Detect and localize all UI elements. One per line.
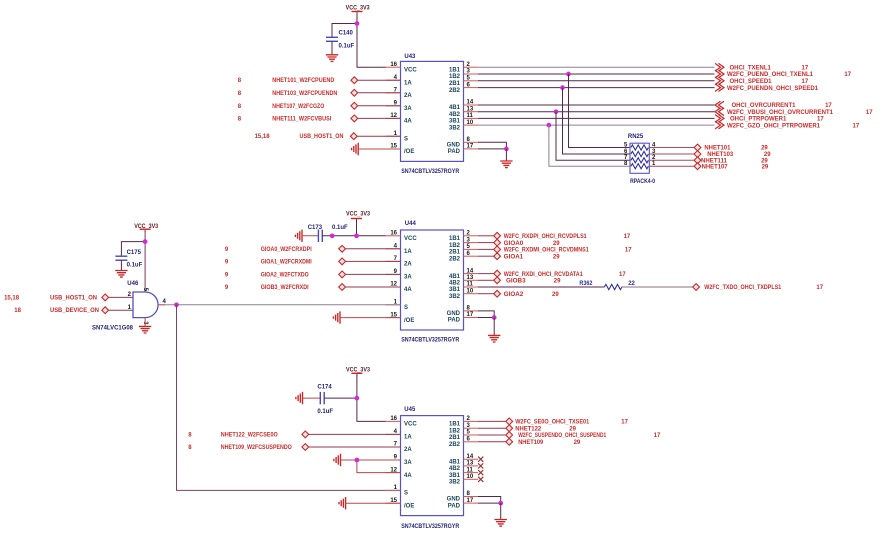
svg-text:NHET122: NHET122: [515, 426, 542, 432]
wire U46 output to U44 pin S: [158, 304, 400, 306]
power VCC_3V3 (top): [346, 5, 371, 14]
svg-text:29: 29: [554, 279, 561, 285]
ground (U44 /OE): [333, 311, 340, 323]
svg-text:NHET107: NHET107: [702, 164, 729, 170]
svg-text:W2FC_SUSPENDO_OHCI_SUSPEND1: W2FC_SUSPENDO_OHCI_SUSPEND1: [518, 433, 607, 439]
node tap at x=548.9: [547, 123, 552, 128]
off-page chevron OHCI_PTRPOWER1: [715, 115, 724, 123]
off-page chevron W2FC_VBUSI_OHCI_OVRCURRENT1: [715, 108, 724, 116]
wire ground to C174: [303, 397, 321, 399]
ground (U45 PAD): [495, 520, 507, 527]
svg-text:17: 17: [844, 72, 851, 78]
wire VCC_3V3 to U46 pin 5: [144, 231, 146, 292]
svg-text:GIOA0_W2FCRXDPI: GIOA0_W2FCRXDPI: [261, 247, 312, 253]
svg-text:C140: C140: [339, 31, 354, 37]
svg-text:USB_HOST1_ON: USB_HOST1_ON: [50, 295, 97, 301]
wire U46 pin 3 to ground: [144, 318, 146, 327]
wire R362 to W2FC_TXDO_OHCI_TXDPLS1: [621, 286, 692, 288]
svg-text:9: 9: [225, 259, 229, 265]
svg-text:GIOA2: GIOA2: [504, 292, 524, 298]
wire net OHCI_OVRCURRENT1: [478, 104, 715, 106]
svg-text:17: 17: [825, 103, 832, 109]
svg-text:17: 17: [619, 272, 626, 278]
wire U44 3B1 to R362: [478, 286, 604, 288]
svg-text:GIOA0: GIOA0: [504, 241, 524, 247]
off-page connector GIOA0_W2FCRXDPI: [339, 245, 346, 252]
svg-text:17: 17: [802, 79, 809, 85]
svg-text:0.1uF: 0.1uF: [339, 43, 355, 49]
wire tap to RN25: [569, 74, 631, 148]
wire net GIOB3: [478, 279, 494, 281]
wire USB_HOST1_ON to U46 pin 2: [109, 296, 133, 298]
svg-text:9: 9: [225, 272, 229, 278]
svg-text:22: 22: [628, 281, 635, 287]
svg-text:W2FC_TXDO_OHCI_TXDPLS1: W2FC_TXDO_OHCI_TXDPLS1: [704, 285, 782, 291]
wire USB_DEVICE_ON to U46 pin 1: [109, 309, 133, 311]
wire net GIOA1: [478, 255, 494, 257]
svg-text:VCC_3V3: VCC_3V3: [346, 5, 371, 11]
no-connect X: [478, 470, 483, 475]
svg-text:OHCI_OVRCURRENT1: OHCI_OVRCURRENT1: [732, 103, 797, 109]
net label W2FC_PUEND_OHCI_TXENL1: [727, 72, 852, 78]
svg-text:U43: U43: [404, 54, 416, 60]
capacitor C175 0.1uF: [115, 250, 142, 268]
off-page connector NHET122_W2FCSE0O: [302, 431, 309, 438]
net label NHET101_W2FCPUEND: [238, 78, 335, 84]
net label NHET122: [515, 426, 576, 432]
wire net W2FC_SE0O_OHCI_TXSE01: [478, 420, 506, 422]
svg-text:C174: C174: [317, 384, 332, 390]
net label GIOA2: [504, 292, 560, 298]
svg-text:29: 29: [574, 440, 581, 446]
net label OHCI_PTRPOWER1: [730, 117, 824, 123]
no-connect X: [478, 457, 483, 462]
svg-text:GIOA2_W2FCTXDO: GIOA2_W2FCTXDO: [261, 272, 309, 278]
svg-text:29: 29: [553, 241, 560, 247]
off-page connector NHET109: [506, 438, 513, 445]
net label NHET111: [701, 159, 768, 165]
net label W2FC_SE0O_OHCI_TXSE01: [515, 420, 628, 426]
svg-text:17: 17: [816, 285, 823, 291]
ground (U46 pin 3): [139, 326, 151, 333]
ground (U45 3A/4A): [334, 454, 341, 466]
node U46 output junction: [174, 302, 179, 307]
svg-text:8: 8: [238, 78, 242, 84]
off-page connector GIOB3: [494, 277, 501, 284]
power VCC_3V3 (U46): [134, 224, 159, 232]
wire net W2FC_GZO_OHCI_PTRPOWER1: [478, 124, 715, 126]
svg-text:RN25: RN25: [628, 134, 644, 140]
svg-text:15,18: 15,18: [255, 134, 271, 140]
svg-text:29: 29: [762, 164, 769, 170]
net label USB_DEVICE_ON: [14, 308, 99, 314]
wire U46 output down to U45 pin S: [177, 305, 401, 491]
wire /OE ground to U44 pin 15: [340, 317, 401, 319]
svg-text:NHET122_W2FCSE0O: NHET122_W2FCSE0O: [221, 432, 278, 438]
svg-text:NHET101_W2FCPUEND: NHET101_W2FCPUEND: [272, 78, 335, 84]
wire GIOA2_W2FCTXDO to pin: [346, 273, 401, 275]
off-page connector NHET103: [694, 151, 701, 158]
svg-text:17: 17: [621, 420, 628, 426]
wire net GIOA2: [478, 293, 494, 295]
wire C175 to ground: [120, 260, 122, 270]
net label W2FC_PUENDN_OHCI_SPEED1: [727, 86, 819, 92]
svg-text:15,18: 15,18: [4, 295, 20, 301]
svg-text:NHET111_W2FCVBUSI: NHET111_W2FCVBUSI: [272, 116, 331, 122]
svg-text:NHET109: NHET109: [518, 440, 544, 446]
svg-text:SN74LVC1G08: SN74LVC1G08: [92, 326, 134, 332]
node C175/VCC junction: [143, 239, 148, 244]
off-page connector USB_HOST1_ON: [102, 294, 109, 301]
off-page connector W2FC_RXDMI_OHCI_RCVDMNS1: [494, 246, 501, 253]
node U44 PAD junction: [492, 315, 497, 320]
svg-text:USB_HOST1_ON: USB_HOST1_ON: [300, 134, 344, 140]
ground (U45 /OE): [339, 497, 346, 509]
off-page connector NHET107_W2FCGZO: [351, 102, 358, 109]
net label W2FC_RXDI_OHCI_RCVDATA1: [504, 272, 627, 278]
net label NHET107_W2FCGZO: [238, 104, 325, 110]
wire tap to RN25: [549, 125, 630, 166]
wire C174 to VCC node: [324, 397, 357, 399]
svg-text:VCC_3V3: VCC_3V3: [346, 212, 371, 218]
node tap at x=562.5: [560, 85, 565, 90]
svg-text:OHCI_PTRPOWER1: OHCI_PTRPOWER1: [730, 117, 787, 123]
net label W2FC_GZO_OHCI_PTRPOWER1: [727, 123, 860, 129]
svg-text:NHET103_W2FCPUENDN: NHET103_W2FCPUENDN: [272, 91, 337, 97]
wire GIOA0_W2FCRXDPI to pin: [346, 248, 401, 250]
svg-text:17: 17: [624, 234, 631, 240]
net label NHET111_W2FCVBUSI: [238, 116, 332, 122]
wire net GIOA0: [478, 242, 494, 244]
net label OHCI_TXENL1: [730, 65, 809, 71]
wire net OHCI_SPEED1: [478, 80, 715, 82]
wire NHET107_W2FCGZO to pin: [358, 105, 401, 107]
ground (U43 PAD): [500, 161, 512, 168]
node C173 junction: [330, 233, 335, 238]
svg-text:GIOA1_W2FCRXDMI: GIOA1_W2FCRXDMI: [261, 259, 312, 265]
ground (C140): [326, 55, 338, 62]
svg-text:W2FC_RXDI_OHCI_RCVDATA1: W2FC_RXDI_OHCI_RCVDATA1: [504, 272, 584, 278]
wire ground to C173: [302, 235, 318, 237]
svg-text:17: 17: [802, 65, 809, 71]
svg-text:C175: C175: [127, 250, 142, 256]
off-page connector GIOA1: [494, 253, 501, 260]
AND gate U46 SN74LVC1G08: [127, 281, 166, 325]
ground (U43 /OE): [352, 143, 359, 155]
svg-text:NHET103: NHET103: [707, 152, 734, 158]
wire GIOA1_W2FCRXDMI to pin: [346, 260, 401, 262]
svg-text:OHCI_TXENL1: OHCI_TXENL1: [730, 65, 772, 71]
off-page connector NHET101: [694, 144, 701, 151]
net label W2FC_VBUSI_OHCI_OVRCURRENT1: [727, 110, 873, 116]
wire C173 to VCC node: [322, 235, 356, 237]
node U45 PAD junction: [498, 501, 503, 506]
svg-text:29: 29: [552, 292, 559, 298]
node U45 3A junction: [355, 458, 360, 463]
svg-text:W2FC_GZO_OHCI_PTRPOWER1: W2FC_GZO_OHCI_PTRPOWER1: [727, 123, 821, 129]
svg-text:17: 17: [625, 248, 632, 254]
svg-text:USB_DEVICE_ON: USB_DEVICE_ON: [50, 308, 99, 314]
svg-text:U46: U46: [127, 281, 139, 287]
svg-text:SN74CBTLV3257RGYR: SN74CBTLV3257RGYR: [401, 337, 460, 343]
net label USB_HOST1_ON (U46 input): [4, 295, 97, 301]
svg-text:SN74CBTLV3257RGYR: SN74CBTLV3257RGYR: [401, 524, 460, 530]
net label W2FC_RXDPI_OHCI_RCVDPLS1: [504, 234, 631, 240]
off-page chevron OHCI_OVRCURRENT1: [715, 101, 724, 109]
net label GIOA2_W2FCTXDO: [225, 272, 309, 278]
wire tap to RN25: [563, 88, 631, 154]
wire RN25 to NHET107: [649, 165, 694, 167]
off-page connector GIOA2_W2FCTXDO: [339, 271, 346, 278]
power VCC_3V3 (bottom): [346, 368, 371, 377]
net label NHET109: [518, 440, 581, 446]
wire U45 GND/PAD to ground: [478, 497, 501, 504]
wire VCC_3V3 to U43 VCC pin 16: [357, 13, 386, 67]
wire net W2FC_RXDPI_OHCI_RCVDPLS1: [478, 235, 494, 237]
net label OHCI_SPEED1: [730, 79, 809, 85]
off-page connector W2FC_TXDO_OHCI_TXDPLS1: [693, 284, 700, 291]
svg-text:8: 8: [188, 445, 192, 451]
svg-text:SN74CBTLV3257RGYR: SN74CBTLV3257RGYR: [401, 169, 460, 175]
wire C140 to ground: [331, 41, 333, 54]
no-connect X: [478, 477, 483, 482]
off-page connector GIOB3_W2FCRXDI: [339, 284, 346, 291]
wire NHET111_W2FCVBUSI to pin: [358, 117, 401, 119]
capacitor C173 0.1uF: [308, 225, 348, 242]
node U43 PAD junction: [504, 147, 509, 152]
ground (C175): [115, 271, 127, 278]
svg-text:GIOA1: GIOA1: [504, 254, 524, 260]
wire U44 GND/PAD to ground: [478, 311, 494, 318]
net label GIOA0_W2FCRXDPI: [225, 247, 312, 253]
resistor pack RN25 RPACK4-0: [624, 134, 656, 185]
svg-text:8: 8: [188, 432, 192, 438]
svg-text:0.1uF: 0.1uF: [317, 409, 333, 415]
ground (U44 PAD): [488, 335, 500, 342]
node tap at x=568.5: [566, 72, 571, 77]
wire VCC_3V3 to U44 VCC pin 16: [357, 220, 386, 236]
svg-text:W2FC_RXDPI_OHCI_RCVDPLS1: W2FC_RXDPI_OHCI_RCVDPLS1: [504, 234, 588, 240]
svg-text:W2FC_RXDMI_OHCI_RCVDMNS1: W2FC_RXDMI_OHCI_RCVDMNS1: [504, 248, 590, 254]
svg-text:17: 17: [654, 433, 661, 439]
capacitor C140 0.1uF: [326, 31, 355, 50]
wire ground to U45 pins 9,12: [341, 459, 401, 461]
svg-text:17: 17: [853, 123, 860, 129]
wire net W2FC_PUEND_OHCI_TXENL1: [478, 73, 715, 75]
svg-text:U45: U45: [404, 407, 416, 413]
ground (C173): [295, 230, 302, 242]
net label GIOB3: [506, 279, 561, 285]
wire NHET122_W2FCSE0O to pin: [309, 433, 401, 435]
wire net W2FC_SUSPENDO_OHCI_SUSPEND1: [478, 434, 506, 436]
off-page chevron W2FC_PUEND_OHCI_TXENL1: [715, 70, 724, 78]
net label NHET109_W2FCSUSPENDO: [188, 445, 292, 451]
ground (C174): [296, 392, 303, 404]
off-page connector USB_DEVICE_ON: [102, 307, 109, 314]
svg-text:RPACK4-0: RPACK4-0: [630, 179, 656, 185]
wire net W2FC_VBUSI_OHCI_OVRCURRENT1: [478, 111, 715, 113]
net label NHET122_W2FCSE0O: [188, 432, 278, 438]
net label NHET101: [704, 146, 768, 152]
IC U45 SN74CBTLV3257RGYR: [386, 416, 479, 516]
off-page connector NHET107: [694, 163, 701, 170]
wire U43 GND/PAD to ground: [478, 142, 506, 149]
wire /OE ground to U45 pin 15: [346, 502, 401, 504]
svg-text:0.1uF: 0.1uF: [127, 262, 143, 268]
wire GIOB3_W2FCRXDI to pin: [346, 286, 401, 288]
wire NHET109_W2FCSUSPENDO to pin: [309, 446, 401, 448]
off-page connector W2FC_RXDI_OHCI_RCVDATA1: [494, 270, 501, 277]
svg-text:9: 9: [225, 247, 229, 253]
off-page chevron OHCI_SPEED1: [715, 77, 724, 85]
svg-text:0.1uF: 0.1uF: [332, 225, 348, 231]
node tap at x=556.0: [554, 109, 559, 114]
wire NHET103_W2FCPUENDN to pin: [358, 92, 401, 94]
net label W2FC_TXDO_OHCI_TXDPLS1: [704, 285, 823, 291]
svg-text:NHET109_W2FCSUSPENDO: NHET109_W2FCSUSPENDO: [221, 445, 292, 451]
off-page connector W2FC_SE0O_OHCI_TXSE01: [506, 418, 513, 425]
off-page connector NHET122: [506, 425, 513, 432]
off-page connector GIOA2: [494, 290, 501, 297]
no-connect X: [478, 463, 483, 468]
svg-text:GIOB3_W2FCRXDI: GIOB3_W2FCRXDI: [261, 285, 309, 291]
node VCC junction (middle): [354, 233, 359, 238]
wire USB_HOST1_ON to U43 pin 1: [357, 135, 400, 137]
off-page connector NHET111_W2FCVBUSI: [351, 115, 358, 122]
net label W2FC_SUSPENDO_OHCI_SUSPEND1: [518, 433, 661, 439]
wire net NHET122: [478, 427, 506, 429]
wire net W2FC_RXDI_OHCI_RCVDATA1: [478, 273, 494, 275]
off-page connector NHET101_W2FCPUEND: [351, 77, 358, 84]
net label W2FC_RXDMI_OHCI_RCVDMNS1: [504, 248, 633, 254]
wire net W2FC_RXDMI_OHCI_RCVDMNS1: [478, 248, 494, 250]
wire tap to RN25: [556, 112, 630, 161]
svg-text:GIOB3: GIOB3: [506, 279, 526, 285]
off-page connector W2FC_SUSPENDO_OHCI_SUSPEND1: [506, 432, 513, 439]
svg-text:NHET107_W2FCGZO: NHET107_W2FCGZO: [272, 104, 324, 110]
svg-text:U44: U44: [405, 221, 417, 227]
svg-text:29: 29: [569, 426, 576, 432]
wire C140 to VCC node: [332, 24, 357, 38]
net label GIOA1_W2FCRXDMI: [225, 259, 312, 265]
svg-text:W2FC_PUENDN_OHCI_SPEED1: W2FC_PUENDN_OHCI_SPEED1: [727, 86, 819, 92]
wire net W2FC_PUENDN_OHCI_SPEED1: [478, 87, 715, 89]
net label USB_HOST1_ON (U43 S): [255, 134, 344, 140]
wire RN25 to NHET111: [649, 159, 694, 161]
svg-text:29: 29: [761, 146, 768, 152]
wire net OHCI_TXENL1: [478, 66, 715, 68]
IC U44 SN74CBTLV3257RGYR: [386, 230, 479, 330]
power VCC_3V3 (middle): [346, 212, 371, 222]
wire net NHET109: [478, 441, 506, 443]
wire RN25 to NHET103: [649, 153, 694, 155]
net label GIOA0: [504, 241, 561, 247]
svg-text:W2FC_VBUSI_OHCI_OVRCURRENT1: W2FC_VBUSI_OHCI_OVRCURRENT1: [727, 110, 834, 116]
svg-text:NHET101: NHET101: [704, 146, 731, 152]
svg-text:W2FC_PUEND_OHCI_TXENL1: W2FC_PUEND_OHCI_TXENL1: [727, 72, 814, 78]
svg-text:8: 8: [238, 91, 242, 97]
resistor R362 22: [579, 281, 635, 290]
net label NHET107: [702, 164, 769, 170]
wire /OE ground to U43 pin 15: [358, 148, 400, 150]
wire C175 to VCC node: [121, 242, 145, 256]
IC U43 SN74CBTLV3257RGYR: [386, 61, 479, 161]
off-page connector NHET103_W2FCPUENDN: [351, 89, 358, 96]
svg-text:R362: R362: [579, 281, 593, 287]
svg-text:8: 8: [238, 104, 242, 110]
svg-text:9: 9: [225, 285, 229, 291]
svg-text:C173: C173: [308, 225, 323, 231]
svg-text:18: 18: [14, 308, 21, 314]
wire RN25 to NHET101: [649, 147, 694, 149]
node C174/VCC junction: [355, 396, 360, 401]
svg-text:17: 17: [866, 110, 873, 116]
node VCC_3V3/C140 junction: [355, 21, 360, 26]
off-page connector NHET109_W2FCSUSPENDO: [302, 444, 309, 451]
svg-text:17: 17: [817, 117, 824, 123]
svg-text:29: 29: [764, 152, 771, 158]
off-page connector W2FC_RXDPI_OHCI_RCVDPLS1: [494, 232, 501, 239]
wire net OHCI_PTRPOWER1: [478, 117, 715, 119]
net label NHET103_W2FCPUENDN: [238, 91, 338, 97]
off-page connector USB_HOST1_ON: [350, 133, 357, 140]
svg-text:OHCI_SPEED1: OHCI_SPEED1: [730, 79, 773, 85]
svg-text:W2FC_SE0O_OHCI_TXSE01: W2FC_SE0O_OHCI_TXSE01: [515, 420, 590, 426]
off-page chevron W2FC_PUENDN_OHCI_SPEED1: [715, 84, 724, 92]
capacitor C174 0.1uF: [317, 384, 333, 415]
off-page connector NHET111: [694, 157, 701, 164]
wire NHET101_W2FCPUEND to pin: [358, 79, 401, 81]
net label GIOB3_W2FCRXDI: [225, 285, 309, 291]
off-page chevron OHCI_TXENL1: [715, 63, 724, 71]
net label GIOA1: [504, 254, 561, 260]
off-page chevron W2FC_GZO_OHCI_PTRPOWER1: [715, 121, 724, 129]
svg-text:8: 8: [238, 116, 242, 122]
off-page connector GIOA1_W2FCRXDMI: [339, 258, 346, 265]
svg-text:29: 29: [553, 254, 560, 260]
off-page connector GIOA0: [494, 239, 501, 246]
net label OHCI_OVRCURRENT1: [732, 103, 833, 109]
net label NHET103: [707, 152, 771, 158]
wire VCC_3V3 to U45 VCC pin 16: [357, 375, 386, 422]
